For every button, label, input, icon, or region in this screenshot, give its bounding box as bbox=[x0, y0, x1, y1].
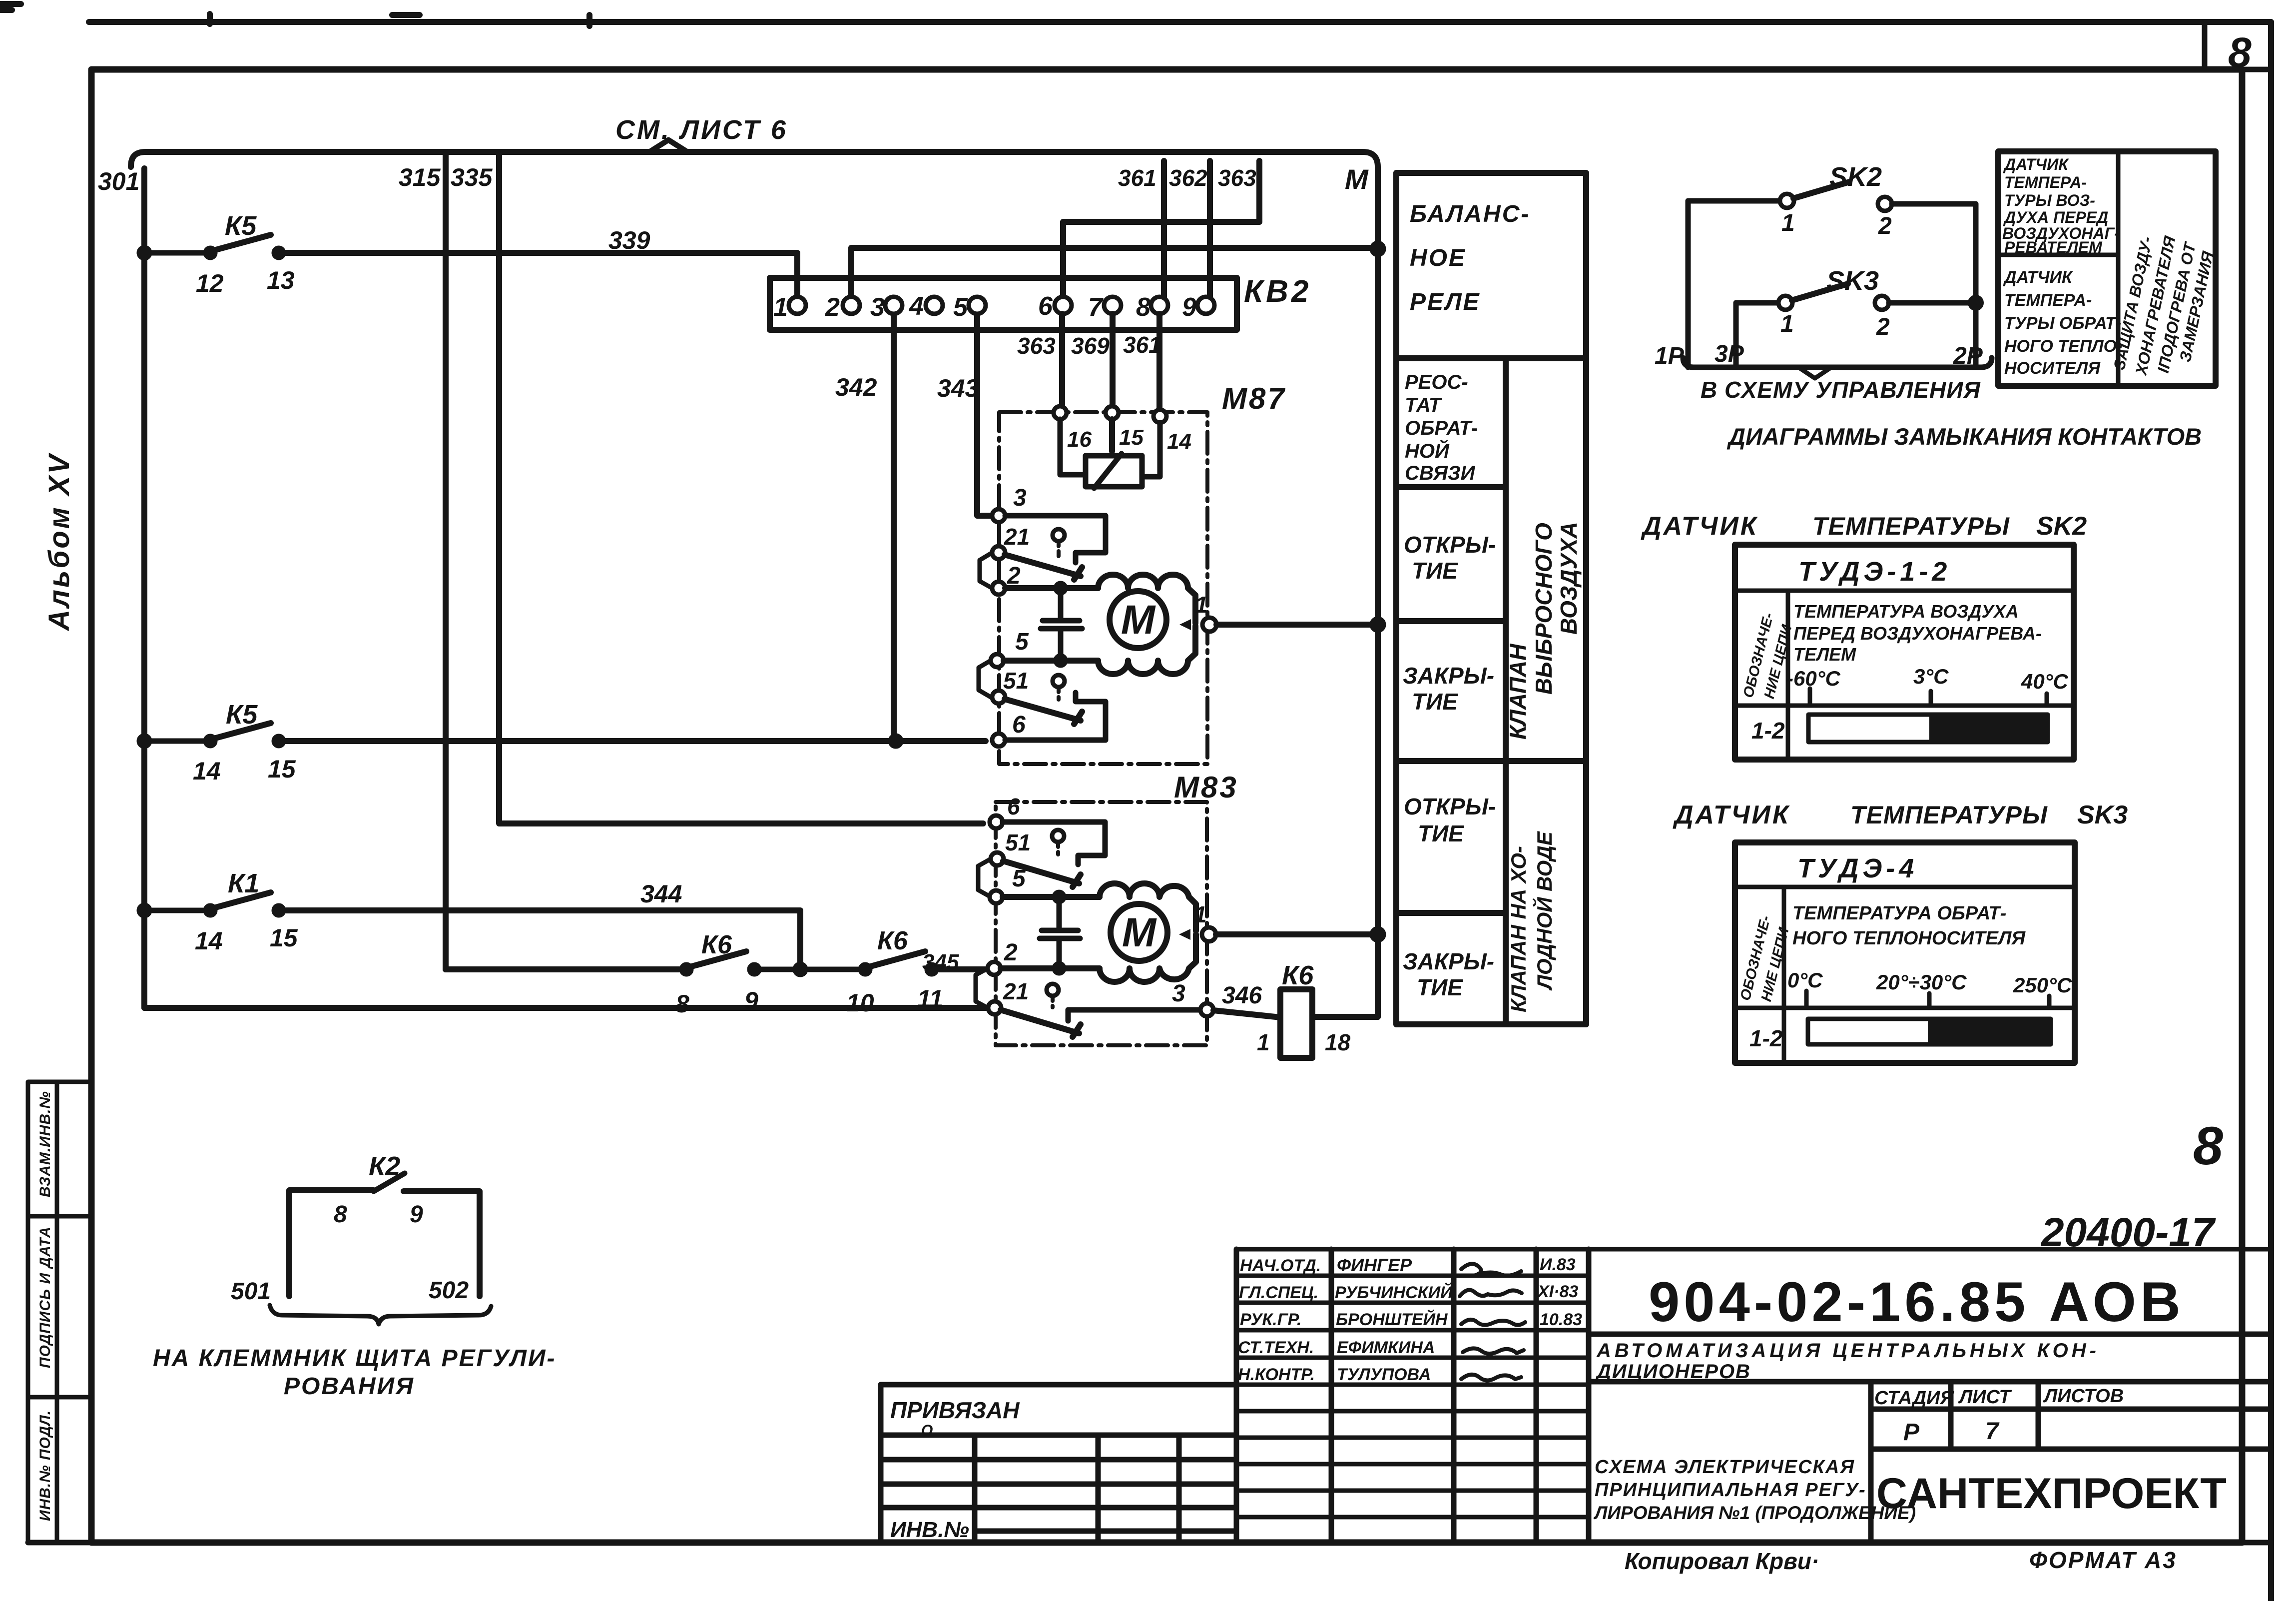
М83 terminal 5 bbox=[990, 890, 1003, 903]
svg-text:М87: М87 bbox=[1222, 382, 1286, 415]
М83 terminal 1 bbox=[1179, 929, 1190, 940]
М87 terminal 51 bbox=[992, 691, 1005, 704]
svg-text:6: 6 bbox=[1012, 712, 1026, 738]
svg-text:342: 342 bbox=[835, 373, 877, 401]
attachment table ПРИВЯЗАН bbox=[881, 1385, 1236, 1543]
svg-text:ИНВ.№: ИНВ.№ bbox=[890, 1518, 969, 1542]
wire terminal2 to motor bbox=[1005, 585, 1098, 591]
М87 lower switch arm bbox=[1005, 699, 1082, 724]
wire М87-1 to bus М bbox=[1216, 622, 1378, 628]
svg-text:51: 51 bbox=[1003, 668, 1029, 694]
svg-text:ВЫБРОСНОГО: ВЫБРОСНОГО bbox=[1531, 523, 1557, 695]
sheet right edge bbox=[2268, 22, 2274, 1601]
svg-text:5: 5 bbox=[1015, 629, 1029, 655]
svg-text:ТИЕ: ТИЕ bbox=[1418, 820, 1464, 846]
contact К2 arm bbox=[374, 1173, 405, 1191]
svg-text:9: 9 bbox=[744, 987, 758, 1015]
svg-text:10.83: 10.83 bbox=[1540, 1310, 1582, 1329]
svg-text:ТИЕ: ТИЕ bbox=[1412, 689, 1458, 715]
svg-text:1: 1 bbox=[1195, 592, 1208, 618]
svg-text:20400-17: 20400-17 bbox=[2040, 1210, 2216, 1255]
svg-text:РЕОС-: РЕОС- bbox=[1405, 371, 1468, 393]
svg-text:БРОНШТЕЙН: БРОНШТЕЙН bbox=[1336, 1310, 1448, 1329]
svg-text:К1: К1 bbox=[228, 868, 259, 898]
svg-text:3°С: 3°С bbox=[1913, 665, 1949, 688]
svg-text:ГЛ.СПЕЦ.: ГЛ.СПЕЦ. bbox=[1239, 1283, 1318, 1302]
wire 344 bbox=[279, 910, 800, 969]
signature Бронштейн bbox=[1461, 1320, 1525, 1325]
svg-text:ТУДЭ-4: ТУДЭ-4 bbox=[1797, 853, 1918, 883]
svg-text:1-2: 1-2 bbox=[1751, 718, 1785, 744]
svg-text:НОСИТЕЛЯ: НОСИТЕЛЯ bbox=[2004, 359, 2101, 378]
svg-text:15: 15 bbox=[1119, 425, 1144, 450]
svg-text:361: 361 bbox=[1123, 332, 1161, 358]
contact К5 pins 14-15 bbox=[144, 739, 207, 744]
svg-text:15: 15 bbox=[270, 924, 298, 952]
svg-text:Н.КОНТР.: Н.КОНТР. bbox=[1238, 1365, 1315, 1384]
wire 342 bbox=[891, 314, 897, 741]
contact К1 pins 14-15 bbox=[144, 908, 207, 913]
svg-text:ДУХА ПЕРЕД: ДУХА ПЕРЕД bbox=[2003, 208, 2108, 226]
svg-text:7: 7 bbox=[1985, 1418, 2000, 1445]
svg-text:ЛИСТ: ЛИСТ bbox=[1958, 1387, 2012, 1408]
М83 terminal 2 bbox=[988, 962, 1001, 975]
contact К6 pins 10-11 bbox=[861, 965, 870, 974]
svg-text:СТАДИЯ: СТАДИЯ bbox=[1874, 1388, 1954, 1409]
frame bottom extension bbox=[28, 1540, 2271, 1546]
svg-text:10: 10 bbox=[846, 989, 874, 1017]
svg-text:21: 21 bbox=[1003, 978, 1029, 1004]
wire bottom row to М83 terminal 21 bbox=[144, 1005, 988, 1011]
svg-text:К5: К5 bbox=[225, 211, 257, 241]
signature Фингер bbox=[1461, 1264, 1521, 1276]
svg-text:ПОДПИСЬ И ДАТА: ПОДПИСЬ И ДАТА bbox=[37, 1226, 53, 1368]
scan tick marks on top edge bbox=[210, 14, 589, 26]
svg-text:ОТКРЫ-: ОТКРЫ- bbox=[1404, 532, 1496, 558]
svg-text:11: 11 bbox=[917, 985, 943, 1013]
motor М87 windings bbox=[1098, 575, 1195, 674]
boundary line В СХЕМУ УПРАВЛЕНИЯ bbox=[1683, 358, 1992, 367]
svg-text:ПЕРЕД ВОЗДУХОНАГРЕВА-: ПЕРЕД ВОЗДУХОНАГРЕВА- bbox=[1793, 623, 2042, 644]
junction wire 342 / row2 bbox=[891, 736, 901, 746]
callout tick under СМ. ЛИСТ 6 bbox=[649, 140, 687, 152]
svg-text:РУК.ГР.: РУК.ГР. bbox=[1240, 1310, 1302, 1329]
junction SK3/right riser bbox=[1971, 298, 1981, 308]
wire 335 vertical bbox=[499, 152, 983, 823]
svg-text:40°С: 40°С bbox=[2021, 670, 2069, 693]
svg-text:301: 301 bbox=[98, 167, 139, 195]
svg-text:344: 344 bbox=[640, 880, 682, 908]
svg-text:Альбом XV: Альбом XV bbox=[43, 453, 75, 632]
svg-text:8: 8 bbox=[675, 990, 689, 1018]
wire 361 to КВ2 pin 8 bbox=[1161, 161, 1167, 297]
contact К6 pins 8-9 bbox=[682, 965, 691, 974]
actuator М83 enclosure bbox=[996, 802, 1207, 1045]
svg-text:7: 7 bbox=[1088, 293, 1104, 322]
wire 346 bbox=[1213, 1010, 1280, 1017]
М87 terminal 3 bbox=[992, 509, 1005, 522]
title block signature grid bbox=[1236, 1249, 2271, 1517]
junction bus/М83-1 bbox=[1372, 929, 1383, 940]
wire 345 to М83 terminal 2 bbox=[932, 966, 987, 972]
svg-text:ОБРАТ-: ОБРАТ- bbox=[1405, 417, 1478, 439]
mechanical link 2-21 bbox=[976, 968, 988, 1008]
svg-text:3: 3 bbox=[870, 293, 885, 322]
brace НА КЛЕММНИК bbox=[270, 1305, 491, 1324]
svg-text:ТЕМПЕРА-: ТЕМПЕРА- bbox=[2004, 291, 2092, 310]
svg-text:ТЕЛЕМ: ТЕЛЕМ bbox=[1793, 644, 1856, 665]
svg-text:К6: К6 bbox=[877, 926, 908, 955]
contact К5 pins 12-13 bbox=[144, 250, 207, 256]
svg-text:335: 335 bbox=[451, 163, 493, 191]
svg-text:12: 12 bbox=[196, 269, 224, 297]
wire 361 КВ2 pin8 to М87 pin14 bbox=[1156, 314, 1162, 410]
actuator М87 enclosure bbox=[999, 412, 1207, 764]
svg-text:ПРИНЦИПИАЛЬНАЯ РЕГУ-: ПРИНЦИПИАЛЬНАЯ РЕГУ- bbox=[1595, 1480, 1866, 1501]
svg-text:Копировал Крви·: Копировал Крви· bbox=[1625, 1548, 1819, 1574]
svg-text:502: 502 bbox=[429, 1277, 469, 1304]
wire 363 to КВ2 pin 6 bbox=[1063, 161, 1259, 297]
М83 cam follower upper bbox=[1052, 830, 1064, 842]
svg-text:SK2: SK2 bbox=[1829, 162, 1882, 192]
М87 terminal 2 bbox=[992, 582, 1005, 595]
wire 315 vertical bbox=[443, 152, 449, 969]
М87 cam follower upper bbox=[1053, 529, 1065, 541]
SK3 scale ticks bbox=[1806, 991, 2049, 1008]
svg-text:ТЕМПЕРАТУРА ОБРАТ-: ТЕМПЕРАТУРА ОБРАТ- bbox=[1792, 903, 2006, 924]
М83 terminal 51 bbox=[991, 852, 1004, 865]
svg-text:БАЛАНС-: БАЛАНС- bbox=[1410, 201, 1530, 227]
svg-text:1Р: 1Р bbox=[1655, 343, 1685, 369]
svg-text:М83: М83 bbox=[1174, 771, 1238, 804]
sensor SK2 table bbox=[1735, 545, 2074, 760]
signature Тулупова bbox=[1461, 1375, 1521, 1381]
svg-text:SK2: SK2 bbox=[2036, 512, 2087, 541]
svg-text:346: 346 bbox=[1222, 982, 1262, 1009]
svg-text:18: 18 bbox=[1325, 1029, 1351, 1055]
wire 362 to КВ2 pin 9 bbox=[1207, 161, 1213, 297]
svg-text:ЗАКРЫ-: ЗАКРЫ- bbox=[1403, 948, 1494, 974]
relay coil К6 bbox=[1280, 989, 1312, 1058]
junction bus/339 bbox=[1372, 243, 1383, 254]
svg-text:Р: Р bbox=[1903, 1419, 1920, 1446]
svg-text:362: 362 bbox=[1169, 165, 1207, 191]
svg-text:ЕФИМКИНА: ЕФИМКИНА bbox=[1337, 1338, 1435, 1357]
svg-text:ТАТ: ТАТ bbox=[1405, 394, 1443, 416]
М87 terminal 16 bbox=[1054, 406, 1067, 419]
svg-text:1: 1 bbox=[773, 293, 788, 322]
svg-text:369: 369 bbox=[1071, 333, 1110, 359]
capacitor C М87 bbox=[1041, 588, 1082, 661]
wire row4 from 315 bbox=[446, 966, 682, 972]
svg-text:КВ2: КВ2 bbox=[1244, 274, 1311, 309]
svg-text:4: 4 bbox=[909, 292, 924, 321]
svg-text:И.83: И.83 bbox=[1540, 1255, 1576, 1274]
svg-text:ТЕМПЕРАТУРА ВОЗДУХА: ТЕМПЕРАТУРА ВОЗДУХА bbox=[1793, 601, 2019, 622]
КВ2 pin circles 1-9 bbox=[789, 297, 806, 314]
svg-text:ТЕМПЕРАТУРЫ: ТЕМПЕРАТУРЫ bbox=[1812, 512, 2010, 540]
М87 terminal 1 bbox=[1179, 619, 1191, 630]
mechanical link 51-5 bbox=[978, 859, 991, 897]
svg-text:8: 8 bbox=[2228, 29, 2252, 76]
junction bus/М87-1 bbox=[1372, 619, 1383, 630]
М83 terminal 3 bbox=[1200, 1003, 1213, 1016]
junction wire 344 / row4 bbox=[754, 967, 862, 972]
svg-text:8: 8 bbox=[334, 1201, 347, 1228]
svg-text:ТУРЫ ОБРАТ-: ТУРЫ ОБРАТ- bbox=[2004, 314, 2121, 333]
М87 upper switch arm bbox=[1005, 555, 1082, 580]
svg-text:343: 343 bbox=[937, 374, 979, 402]
svg-text:ЗАКРЫ-: ЗАКРЫ- bbox=[1403, 663, 1494, 689]
svg-text:РЕВАТЕЛЕМ: РЕВАТЕЛЕМ bbox=[2004, 238, 2103, 256]
svg-text:ПРИВЯЗАН: ПРИВЯЗАН bbox=[890, 1397, 1020, 1423]
svg-text:2: 2 bbox=[1004, 939, 1018, 966]
frost protection note box bbox=[1998, 151, 2216, 386]
svg-text:М: М bbox=[1121, 597, 1156, 643]
svg-text:SK3: SK3 bbox=[2077, 800, 2128, 829]
svg-text:РЕЛЕ: РЕЛЕ bbox=[1410, 289, 1481, 315]
svg-text:16: 16 bbox=[1067, 427, 1092, 452]
svg-text:9: 9 bbox=[410, 1201, 423, 1228]
svg-text:АВТОМАТИЗАЦИЯ ЦЕНТРАЛЬНЫХ КОН: АВТОМАТИЗАЦИЯ ЦЕНТРАЛЬНЫХ КОН- bbox=[1596, 1340, 2100, 1362]
svg-text:ДАТЧИК: ДАТЧИК bbox=[1641, 512, 1758, 541]
svg-text:250°С: 250°С bbox=[2013, 973, 2072, 997]
М83 lower switch arm bbox=[1001, 1010, 1081, 1037]
svg-text:СХЕМА ЭЛЕКТРИЧЕСКАЯ: СХЕМА ЭЛЕКТРИЧЕСКАЯ bbox=[1595, 1457, 1855, 1478]
svg-text:САНТЕХПРОЕКТ: САНТЕХПРОЕКТ bbox=[1876, 1470, 2227, 1518]
svg-text:904-02-16.85 АОВ: 904-02-16.85 АОВ bbox=[1649, 1271, 2185, 1333]
svg-text:14: 14 bbox=[195, 927, 223, 955]
wire М83-1 to bus М bbox=[1216, 931, 1378, 937]
wire 369 КВ2 pin7 to М87 pin15 bbox=[1110, 314, 1116, 406]
scan smudge top left bbox=[0, 4, 21, 10]
svg-text:ТИЕ: ТИЕ bbox=[1417, 974, 1463, 1000]
svg-text:НОЕ: НОЕ bbox=[1410, 245, 1466, 271]
svg-text:НА КЛЕММНИК ЩИТА РЕГУЛИ-: НА КЛЕММНИК ЩИТА РЕГУЛИ- bbox=[153, 1345, 557, 1372]
svg-text:ВЗАМ.ИНВ.№: ВЗАМ.ИНВ.№ bbox=[37, 1091, 53, 1197]
contact К2 left lead 501 bbox=[289, 1190, 374, 1296]
svg-text:6: 6 bbox=[1038, 292, 1053, 321]
svg-text:0°С: 0°С bbox=[1787, 968, 1823, 992]
svg-text:5: 5 bbox=[1012, 865, 1026, 892]
left stamp box ПОДПИСЬ И ДАТА bbox=[28, 1216, 91, 1397]
svg-text:345: 345 bbox=[922, 950, 959, 974]
motor М83 windings bbox=[1100, 883, 1196, 982]
svg-text:315: 315 bbox=[399, 163, 441, 191]
svg-text:ЛОДНОЙ ВОДЕ: ЛОДНОЙ ВОДЕ bbox=[1532, 830, 1556, 991]
contact К2 right lead 502 bbox=[404, 1191, 480, 1296]
svg-text:К6: К6 bbox=[1282, 960, 1314, 990]
М83 limit switch lower fixed contact bbox=[1068, 1010, 1200, 1021]
svg-text:51: 51 bbox=[1005, 829, 1031, 855]
svg-text:О: О bbox=[921, 1422, 933, 1439]
М87 cam follower lower bbox=[1053, 675, 1065, 687]
svg-text:501: 501 bbox=[231, 1278, 271, 1305]
mechanical link 5-51 bbox=[979, 661, 991, 697]
balance relay КВ2 terminal block bbox=[770, 278, 1237, 330]
junction row1 bbox=[139, 248, 149, 258]
wire row2 to М87 terminal 6 bbox=[279, 738, 986, 744]
svg-text:14: 14 bbox=[1167, 429, 1191, 454]
svg-text:СМ. ЛИСТ 6: СМ. ЛИСТ 6 bbox=[615, 115, 788, 145]
svg-text:361: 361 bbox=[1118, 165, 1156, 191]
svg-text:1-2: 1-2 bbox=[1749, 1025, 1783, 1051]
svg-text:9: 9 bbox=[1182, 293, 1196, 322]
М87 limit switch lower fixed contact bbox=[1005, 693, 1106, 740]
svg-text:2: 2 bbox=[1007, 563, 1021, 589]
svg-text:ТЕМПЕРАТУРЫ: ТЕМПЕРАТУРЫ bbox=[1850, 801, 2048, 829]
node 301 : left bus bbox=[141, 168, 147, 1008]
SK2 closure bar bbox=[1808, 715, 2048, 742]
svg-text:2Р: 2Р bbox=[1953, 343, 1983, 369]
М87 terminal 14 bbox=[1153, 410, 1166, 423]
svg-text:КЛАПАН: КЛАПАН bbox=[1505, 644, 1531, 740]
М87 terminal 6 bbox=[992, 734, 1005, 747]
svg-text:ФИНГЕР: ФИНГЕР bbox=[1337, 1255, 1412, 1275]
svg-text:21: 21 bbox=[1004, 524, 1030, 550]
svg-text:339: 339 bbox=[608, 226, 650, 254]
svg-text:М: М bbox=[1345, 163, 1369, 195]
М83 terminal 21 bbox=[988, 1001, 1001, 1014]
svg-text:1: 1 bbox=[1781, 210, 1795, 236]
stage/sheet cells bbox=[1871, 1382, 2271, 1543]
rheostat wiper from pin 15 bbox=[1109, 419, 1115, 451]
svg-text:3: 3 bbox=[1013, 485, 1027, 511]
left stamp box ИНВ.№ ПОДЛ. bbox=[28, 1397, 91, 1543]
svg-text:-60°С: -60°С bbox=[1786, 667, 1840, 690]
М83 upper switch arm bbox=[1003, 861, 1081, 887]
М87 limit switch upper fixed contact bbox=[1005, 516, 1106, 563]
motor М87 bbox=[1110, 591, 1166, 648]
svg-text:СТ.ТЕХН.: СТ.ТЕХН. bbox=[1238, 1338, 1314, 1357]
svg-text:ЛИРОВАНИЯ №1 (ПРОДОЛЖЕНИЕ): ЛИРОВАНИЯ №1 (ПРОДОЛЖЕНИЕ) bbox=[1593, 1503, 1916, 1523]
svg-text:2: 2 bbox=[1878, 213, 1892, 239]
svg-text:ТУРЫ ВОЗ-: ТУРЫ ВОЗ- bbox=[2004, 191, 2095, 209]
rheostat feedback wires 16,14 bbox=[1060, 419, 1160, 477]
М87 terminal 15 bbox=[1106, 406, 1119, 419]
svg-text:14: 14 bbox=[193, 757, 221, 785]
svg-text:НОГО ТЕПЛОНОСИТЕЛЯ: НОГО ТЕПЛОНОСИТЕЛЯ bbox=[1792, 928, 2026, 949]
junction row2 bbox=[139, 736, 149, 746]
contact diagram SK3 branch bbox=[1736, 303, 1778, 367]
svg-text:8: 8 bbox=[1136, 293, 1150, 322]
svg-text:СВЯЗИ: СВЯЗИ bbox=[1405, 462, 1476, 484]
М87 terminal 5 bbox=[991, 654, 1004, 667]
svg-text:ТУДЭ-1-2: ТУДЭ-1-2 bbox=[1798, 557, 1951, 587]
signature Ефимкина bbox=[1463, 1348, 1524, 1354]
svg-text:3: 3 bbox=[1172, 980, 1185, 1007]
М87 terminal 21 bbox=[992, 546, 1005, 559]
svg-text:НОГО ТЕПЛО-: НОГО ТЕПЛО- bbox=[2004, 337, 2122, 356]
svg-text:SK3: SK3 bbox=[1826, 266, 1879, 296]
valve legend table bbox=[1396, 173, 1586, 1024]
svg-text:РУБЧИНСКИЙ: РУБЧИНСКИЙ bbox=[1335, 1283, 1453, 1302]
svg-text:ВОЗДУХА: ВОЗДУХА bbox=[1556, 522, 1582, 635]
svg-text:ДАТЧИК: ДАТЧИК bbox=[2003, 155, 2069, 173]
svg-text:ТЕМПЕРА-: ТЕМПЕРА- bbox=[2004, 173, 2087, 191]
svg-text:НОЙ: НОЙ bbox=[1405, 439, 1450, 462]
mechanical link 21-2 bbox=[980, 553, 992, 588]
svg-text:КЛАПАН НА ХО-: КЛАПАН НА ХО- bbox=[1507, 846, 1530, 1012]
junction row3 bbox=[139, 905, 149, 915]
svg-text:ДАТЧИК: ДАТЧИК bbox=[2003, 268, 2073, 287]
svg-text:ДИЦИОНЕРОВ: ДИЦИОНЕРОВ bbox=[1595, 1361, 1751, 1383]
svg-text:20°÷30°С: 20°÷30°С bbox=[1876, 970, 1967, 994]
SK2 scale ticks bbox=[1810, 689, 2047, 706]
svg-text:1: 1 bbox=[1257, 1029, 1270, 1055]
svg-text:2: 2 bbox=[1876, 314, 1890, 340]
doc number cell bbox=[1589, 1334, 2271, 1382]
svg-text:НАЧ.ОТД.: НАЧ.ОТД. bbox=[1240, 1256, 1321, 1275]
svg-text:ОТКРЫ-: ОТКРЫ- bbox=[1404, 794, 1496, 819]
sensor SK3 table bbox=[1735, 842, 2075, 1063]
svg-text:5: 5 bbox=[953, 293, 968, 322]
svg-text:РОВАНИЯ: РОВАНИЯ bbox=[284, 1373, 415, 1400]
svg-text:ТУЛУПОВА: ТУЛУПОВА bbox=[1337, 1365, 1431, 1384]
capacitor C М83 bbox=[1040, 897, 1080, 968]
svg-text:1: 1 bbox=[1194, 901, 1207, 927]
wire К6 pin18 to bus М bbox=[1312, 1014, 1378, 1020]
motor М83 bbox=[1111, 904, 1167, 961]
wire 343 bbox=[977, 314, 991, 516]
svg-text:К2: К2 bbox=[369, 1151, 400, 1181]
wire 339 bbox=[279, 253, 797, 298]
svg-text:8: 8 bbox=[2193, 1115, 2223, 1176]
svg-text:6: 6 bbox=[1007, 794, 1020, 819]
svg-text:ЛИСТОВ: ЛИСТОВ bbox=[2043, 1386, 2124, 1407]
svg-text:15: 15 bbox=[268, 755, 296, 783]
svg-text:К5: К5 bbox=[226, 700, 258, 730]
sheet top edge bbox=[89, 19, 2271, 25]
svg-text:1: 1 bbox=[1780, 311, 1794, 337]
contact diagram SK2 branch bbox=[1688, 201, 1779, 367]
svg-text:ХI·83: ХI·83 bbox=[1537, 1282, 1578, 1301]
svg-text:2: 2 bbox=[825, 293, 840, 322]
svg-text:13: 13 bbox=[267, 266, 295, 294]
svg-text:К6: К6 bbox=[701, 930, 732, 959]
КВ2 terminal 2 wire to bus М bbox=[851, 248, 1378, 297]
svg-text:ТИЕ: ТИЕ bbox=[1412, 558, 1458, 584]
wire 363 КВ2 pin6 to М87 pin16 bbox=[1059, 314, 1065, 406]
feedback rheostat body bbox=[1086, 456, 1142, 487]
М83 limit switch upper fixed contact bbox=[1003, 822, 1105, 864]
М83 terminal 6 bbox=[990, 815, 1003, 828]
svg-text:3Р: 3Р bbox=[1715, 341, 1744, 367]
sheet number box top right bbox=[2205, 22, 2271, 69]
svg-text:ДАТЧИК: ДАТЧИК bbox=[1673, 800, 1790, 829]
left stamp box ВЗАМ.ИНВ.№ bbox=[28, 1082, 91, 1216]
svg-text:В СХЕМУ УПРАВЛЕНИЯ: В СХЕМУ УПРАВЛЕНИЯ bbox=[1701, 377, 1981, 403]
svg-text:363: 363 bbox=[1218, 165, 1256, 191]
svg-text:ФОРМАТ А3: ФОРМАТ А3 bbox=[2029, 1547, 2177, 1573]
SK3 closure bar bbox=[1808, 1019, 2051, 1044]
svg-text:М: М bbox=[1122, 910, 1157, 955]
svg-text:ИНВ.№ ПОДЛ.: ИНВ.№ ПОДЛ. bbox=[37, 1410, 53, 1521]
svg-text:ДИАГРАММЫ ЗАМЫКАНИЯ КОНТАКТОВ: ДИАГРАММЫ ЗАМЫКАНИЯ КОНТАКТОВ bbox=[1726, 423, 2202, 450]
boundary wire to sheet 6 (СМ. ЛИСТ 6) with hooks, continues as bus М bbox=[131, 152, 1378, 1017]
svg-text:363: 363 bbox=[1017, 333, 1056, 359]
М83 cam follower lower bbox=[1047, 984, 1059, 996]
signature Рубчинский bbox=[1460, 1290, 1522, 1297]
